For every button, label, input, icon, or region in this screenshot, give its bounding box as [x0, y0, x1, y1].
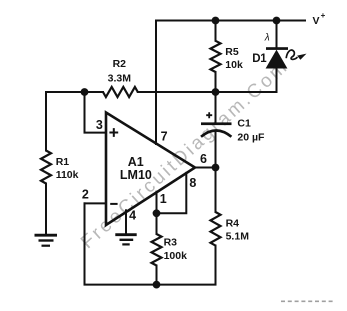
faint id dashes bottom right — [281, 300, 335, 302]
wire R5 column stubs — [215, 21, 217, 93]
svg-text:3.3M: 3.3M — [108, 73, 132, 85]
node dot top rail / R5 — [212, 17, 220, 25]
diode D1 triangle — [266, 50, 288, 69]
resistor R3 100k — [152, 234, 162, 266]
node dot top rail / D1 — [273, 17, 281, 25]
svg-text:110k: 110k — [56, 169, 79, 181]
wire pin 7 supply drop — [155, 21, 157, 145]
svg-text:λ: λ — [264, 33, 270, 44]
capacitor C1 curved plate — [201, 131, 231, 137]
wire feedback left and bottom rail — [85, 203, 216, 284]
svg-text:R1: R1 — [56, 156, 70, 168]
node dot R2 left / pin3 — [81, 88, 89, 96]
wire pin 4 ground drop — [125, 210, 127, 233]
resistor R2 3.3M — [103, 87, 138, 97]
wire C1 column — [215, 92, 217, 168]
svg-text:5.1M: 5.1M — [226, 231, 250, 243]
resistor R5 10k — [211, 41, 221, 72]
svg-text:R3: R3 — [164, 236, 178, 248]
wire pin 1 — [156, 192, 158, 214]
node dot pin1 / R3 top — [153, 209, 161, 217]
svg-text:LM10: LM10 — [120, 168, 152, 182]
svg-text:+: + — [321, 11, 326, 20]
wire R1 branch — [45, 92, 47, 234]
svg-text:3: 3 — [96, 118, 103, 132]
svg-text:8: 8 — [189, 176, 196, 190]
wire output to R4 — [215, 168, 217, 213]
svg-text:20 µF: 20 µF — [237, 131, 265, 143]
svg-text:R2: R2 — [113, 58, 127, 70]
ground below pin 4 — [115, 235, 136, 245]
diode D1 light squiggle arrow — [286, 50, 297, 59]
svg-text:6: 6 — [200, 152, 207, 166]
node dot output pin 6 — [212, 164, 220, 172]
wire pin 3 branch — [85, 92, 107, 133]
svg-text:V: V — [313, 15, 320, 27]
svg-text:10k: 10k — [225, 59, 243, 71]
svg-text:R4: R4 — [226, 218, 240, 230]
svg-text:4: 4 — [129, 208, 136, 222]
wire pin1-pin8 tie — [157, 173, 187, 213]
resistor R1 110k — [41, 151, 51, 184]
resistor R4 5.1M — [211, 212, 221, 246]
ground below R1 — [35, 235, 58, 246]
wire top rail V+ — [156, 20, 305, 22]
op-amp plus input mark — [109, 128, 118, 137]
svg-text:7: 7 — [161, 130, 168, 144]
wire D1 column — [276, 21, 278, 93]
capacitor C1 plus mark — [206, 112, 212, 118]
svg-text:R5: R5 — [225, 46, 239, 58]
svg-text:2: 2 — [82, 187, 89, 201]
wire output pin 6 — [195, 167, 216, 169]
svg-text:D1: D1 — [252, 53, 267, 65]
svg-text:100k: 100k — [164, 250, 188, 262]
diode D1 cathode bar — [266, 47, 288, 50]
op-amp minus input mark — [110, 203, 117, 205]
svg-text:C1: C1 — [237, 117, 251, 129]
svg-text:A1: A1 — [128, 155, 144, 169]
capacitor C1 top plate — [201, 122, 232, 125]
svg-text:1: 1 — [160, 192, 167, 206]
wire pin 2 input — [85, 202, 107, 204]
wire mid horizontal R2 row — [46, 91, 277, 93]
node dot R3 bottom / bottom rail — [153, 281, 161, 289]
wire R3 stubs — [156, 213, 158, 284]
node dot R5 bottom / C1 — [212, 88, 220, 96]
op-amp A1 LM10 triangle — [106, 113, 195, 226]
